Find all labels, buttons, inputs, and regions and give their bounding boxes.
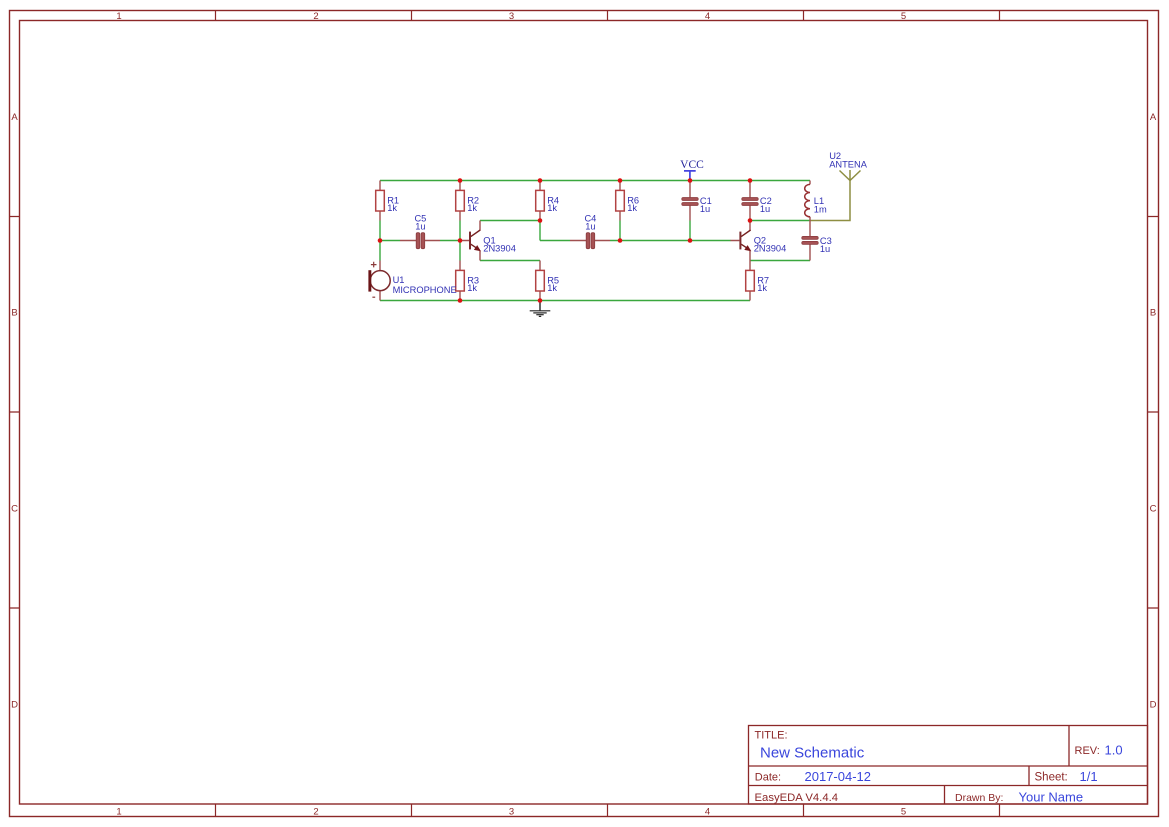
svg-text:1u: 1u [820, 244, 830, 254]
wire Q1 emitter rail [480, 260, 540, 262]
svg-text:1k: 1k [467, 203, 477, 213]
resistor R1 [376, 181, 399, 221]
wire C1 bottom [689, 221, 691, 241]
inductor L1 [805, 181, 827, 221]
svg-text:D: D [1150, 700, 1157, 711]
capacitor C1 [682, 181, 712, 221]
capacitor C4 [570, 214, 610, 249]
wire Q1 collector rail [480, 220, 540, 222]
svg-text:1u: 1u [585, 221, 595, 231]
svg-text:B: B [1150, 308, 1156, 319]
capacitor C3 [802, 221, 832, 261]
svg-text:Sheet:: Sheet: [1035, 772, 1068, 784]
wire top rail [380, 180, 810, 182]
svg-text:1k: 1k [547, 203, 557, 213]
svg-text:U1: U1 [393, 275, 405, 285]
transistor Q2 [731, 221, 787, 261]
svg-text:2N3904: 2N3904 [754, 244, 787, 254]
wire mid rail right [540, 240, 731, 242]
junction ground node [538, 298, 543, 303]
svg-text:1k: 1k [467, 283, 477, 293]
wire left rail [379, 221, 381, 261]
wire R4 bottom [539, 221, 541, 241]
svg-text:1: 1 [116, 807, 121, 818]
svg-text:1m: 1m [814, 205, 827, 215]
svg-text:EasyEDA V4.4.4: EasyEDA V4.4.4 [755, 792, 839, 804]
svg-text:1k: 1k [387, 203, 397, 213]
svg-text:B: B [11, 308, 17, 319]
VCC net flag [680, 159, 704, 180]
svg-text:4: 4 [705, 807, 710, 818]
svg-text:Drawn By:: Drawn By: [955, 792, 1003, 804]
svg-text:A: A [1150, 112, 1157, 123]
svg-text:1k: 1k [547, 283, 557, 293]
junction R3 bottom node [458, 298, 463, 303]
wire antenna olive [810, 181, 850, 221]
resistor R4 [536, 181, 559, 221]
svg-text:1u: 1u [760, 204, 770, 214]
frame column numbers bottom [116, 807, 906, 818]
svg-text:1: 1 [116, 11, 121, 22]
svg-text:3: 3 [509, 807, 514, 818]
junction R6 top [618, 178, 623, 183]
svg-text:New Schematic: New Schematic [760, 745, 865, 762]
svg-text:Date:: Date: [755, 772, 781, 784]
resistor R2 [456, 181, 479, 221]
wire mid rail left [380, 240, 460, 242]
resistor R5 [536, 261, 559, 301]
wire C2 to L1 rail [750, 220, 810, 222]
resistor R6 [616, 181, 639, 221]
svg-text:TITLE:: TITLE: [755, 729, 788, 741]
junction C1 bottom node [688, 238, 693, 243]
title block [749, 726, 1148, 805]
svg-text:2N3904: 2N3904 [483, 244, 516, 254]
svg-text:Your Name: Your Name [1019, 790, 1084, 805]
svg-text:4: 4 [705, 11, 710, 22]
resistor R7 [746, 261, 769, 301]
wire bottom rail [380, 300, 750, 302]
junction R6/C4 node [618, 238, 623, 243]
junction C2 bottom node [748, 218, 753, 223]
transistor Q1 [460, 221, 516, 261]
svg-text:D: D [11, 700, 18, 711]
junction R4 bottom node [538, 218, 543, 223]
svg-text:1k: 1k [757, 283, 767, 293]
title block texts [755, 729, 1123, 804]
svg-text:A: A [11, 112, 18, 123]
svg-text:1/1: 1/1 [1080, 769, 1098, 784]
wire R6 bottom [619, 221, 621, 241]
svg-text:VCC: VCC [680, 159, 704, 171]
svg-text:C: C [11, 504, 18, 515]
junction R2 top [458, 178, 463, 183]
frame row letters right [1150, 112, 1157, 711]
junction VCC/C1 top [688, 178, 693, 183]
junction C5 left node [378, 238, 383, 243]
svg-text:MICROPHONE: MICROPHONE [393, 285, 457, 295]
wire R2 column [459, 221, 461, 261]
svg-text:3: 3 [509, 11, 514, 22]
svg-text:REV:: REV: [1075, 745, 1100, 757]
wire Q2 emitter to C3 rail [750, 260, 810, 262]
junction R4 top [538, 178, 543, 183]
microphone U1 [368, 261, 456, 301]
svg-text:ANTENA: ANTENA [829, 160, 868, 170]
junction C2 top [748, 178, 753, 183]
antenna U2 [829, 151, 868, 181]
capacitor C2 [742, 181, 772, 221]
svg-text:2: 2 [313, 11, 318, 22]
frame row letters left [11, 112, 18, 711]
svg-text:5: 5 [901, 807, 906, 818]
svg-text:2017-04-12: 2017-04-12 [805, 769, 872, 784]
svg-text:5: 5 [901, 11, 906, 22]
svg-text:C: C [1150, 504, 1157, 515]
svg-text:1u: 1u [700, 204, 710, 214]
resistor R3 [456, 261, 479, 301]
svg-text:1u: 1u [415, 221, 425, 231]
svg-text:1.0: 1.0 [1105, 743, 1123, 758]
ground symbol [530, 301, 551, 316]
svg-text:2: 2 [313, 807, 318, 818]
frame column numbers top [116, 11, 906, 22]
capacitor C5 [400, 214, 440, 249]
svg-text:1k: 1k [627, 203, 637, 213]
junction Q1 base node [458, 238, 463, 243]
